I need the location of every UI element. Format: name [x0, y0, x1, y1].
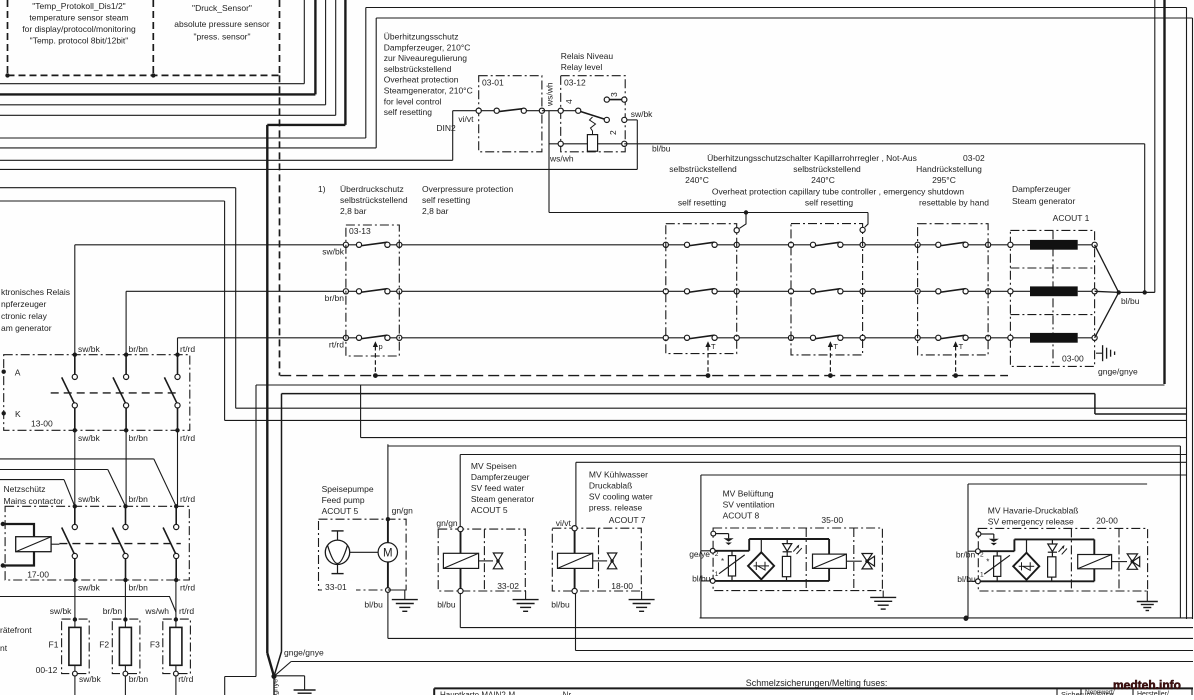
svg-text:*: * — [986, 557, 989, 566]
svg-text:selbstrückstellend: selbstrückstellend — [793, 164, 861, 174]
svg-text:T: T — [959, 342, 964, 351]
svg-text:Nennwert/: Nennwert/ — [1085, 689, 1115, 695]
svg-text:bl/bu: bl/bu — [692, 574, 711, 584]
svg-text:ACOUT 5: ACOUT 5 — [471, 505, 508, 515]
svg-text:240°C: 240°C — [811, 175, 835, 185]
svg-text:33-02: 33-02 — [497, 581, 519, 591]
svg-text:295°C: 295°C — [932, 175, 956, 185]
svg-text:br/bn: br/bn — [129, 674, 149, 684]
svg-text:MV Kühlwasser: MV Kühlwasser — [589, 470, 648, 480]
svg-text:"Druck_Sensor": "Druck_Sensor" — [192, 3, 252, 13]
svg-text:br/bn: br/bn — [129, 344, 149, 354]
svg-text:ws/wh: ws/wh — [549, 154, 574, 164]
svg-text:gnye: gnye — [271, 679, 280, 695]
svg-text:03-12: 03-12 — [564, 78, 586, 88]
svg-text:bl/bu: bl/bu — [957, 574, 976, 584]
svg-text:ACOUT 5: ACOUT 5 — [322, 506, 359, 516]
svg-text:ws/wh: ws/wh — [545, 82, 555, 107]
svg-text:Hauptkarte MAIN2-M: Hauptkarte MAIN2-M — [440, 691, 515, 696]
svg-text:3: 3 — [609, 92, 619, 97]
svg-text:4: 4 — [564, 99, 574, 104]
svg-text:03-02: 03-02 — [963, 153, 985, 163]
svg-text:"Temp_Protokoll_Dis1/2": "Temp_Protokoll_Dis1/2" — [32, 1, 125, 11]
svg-text:ctronic relay: ctronic relay — [1, 311, 48, 321]
svg-text:SV feed water: SV feed water — [471, 483, 525, 493]
svg-text:MV Belüftung: MV Belüftung — [723, 489, 774, 499]
svg-text:*: * — [721, 557, 724, 566]
svg-text:p: p — [379, 342, 383, 351]
svg-text:npferzeuger: npferzeuger — [1, 299, 47, 309]
svg-text:1: 1 — [980, 571, 984, 578]
svg-text:rt/rd: rt/rd — [329, 340, 344, 350]
svg-text:for level control: for level control — [384, 96, 442, 106]
svg-text:ACOUT 8: ACOUT 8 — [723, 511, 760, 521]
svg-text:Steam generator: Steam generator — [1012, 196, 1075, 206]
svg-text:Dampferzeuger, 210°C: Dampferzeuger, 210°C — [384, 42, 471, 52]
svg-text:2,8 bar: 2,8 bar — [340, 206, 367, 216]
svg-text:"press. sensor": "press. sensor" — [193, 32, 250, 42]
svg-text:240°C: 240°C — [685, 175, 709, 185]
svg-text:DIN2: DIN2 — [436, 123, 456, 133]
svg-text:rt/rd: rt/rd — [180, 433, 195, 443]
svg-text:MV Havarie-Druckablaß: MV Havarie-Druckablaß — [988, 506, 1079, 516]
svg-text:gn/gn: gn/gn — [392, 506, 414, 516]
svg-text:ACOUT 7: ACOUT 7 — [609, 515, 646, 525]
svg-text:sw/bk: sw/bk — [631, 109, 653, 119]
svg-text:resettable by hand: resettable by hand — [919, 198, 989, 208]
svg-text:Überdruckschutz: Überdruckschutz — [340, 184, 404, 194]
svg-text:T: T — [711, 342, 716, 351]
svg-text:sw/bk: sw/bk — [79, 674, 101, 684]
svg-text:sw/bk: sw/bk — [78, 433, 100, 443]
svg-text:F2: F2 — [99, 640, 109, 650]
svg-text:ws/wh: ws/wh — [144, 606, 169, 616]
svg-text:Dampferzeuger: Dampferzeuger — [471, 472, 530, 482]
svg-text:Overheat protection capillary: Overheat protection capillary tube contr… — [712, 187, 965, 197]
svg-text:gn/gn: gn/gn — [436, 518, 458, 528]
svg-text:bl/bu: bl/bu — [364, 600, 383, 610]
svg-text:absolute pressure sensor: absolute pressure sensor — [174, 19, 270, 29]
svg-text:br/bn: br/bn — [129, 433, 149, 443]
svg-text:Steam generator: Steam generator — [471, 494, 534, 504]
svg-text:Überhitzungsschutz: Überhitzungsschutz — [384, 32, 459, 42]
svg-text:M: M — [383, 548, 393, 560]
svg-text:Schmelzsicherungen/Melting fus: Schmelzsicherungen/Melting fuses: — [746, 678, 888, 688]
svg-text:Netzschütz: Netzschütz — [4, 484, 46, 494]
svg-text:br/bn: br/bn — [103, 606, 123, 616]
svg-text:03-13: 03-13 — [349, 226, 371, 236]
svg-text:SV cooling water: SV cooling water — [589, 492, 653, 502]
svg-text:rt/rd: rt/rd — [180, 344, 195, 354]
svg-text:br/bn: br/bn — [325, 293, 345, 303]
svg-text:2: 2 — [980, 551, 984, 558]
svg-text:Handrückstellung: Handrückstellung — [916, 164, 982, 174]
svg-text:bl/bu: bl/bu — [551, 600, 570, 610]
svg-text:zur Niveauregulierung: zur Niveauregulierung — [384, 53, 467, 63]
svg-text:rt/rd: rt/rd — [180, 494, 195, 504]
svg-text:medteh.info: medteh.info — [1113, 678, 1181, 692]
svg-text:rt/rd: rt/rd — [180, 583, 195, 593]
svg-text:br/bn: br/bn — [129, 494, 149, 504]
svg-text:self resetting: self resetting — [678, 198, 726, 208]
svg-text:br/bn: br/bn — [129, 583, 149, 593]
svg-text:20-00: 20-00 — [1096, 515, 1118, 525]
svg-text:nt: nt — [0, 643, 8, 653]
svg-text:Overpressure protection: Overpressure protection — [422, 184, 513, 194]
svg-text:self resetting: self resetting — [384, 107, 432, 117]
svg-text:Dampferzeuger: Dampferzeuger — [1012, 184, 1071, 194]
svg-text:13-00: 13-00 — [31, 419, 53, 429]
svg-text:gnge/gnye: gnge/gnye — [284, 648, 324, 658]
svg-text:Overheat protection: Overheat protection — [384, 75, 459, 85]
svg-text:vi/vt: vi/vt — [556, 518, 572, 528]
svg-text:rt/rd: rt/rd — [179, 606, 194, 616]
svg-text:sw/bk: sw/bk — [78, 494, 100, 504]
svg-text:Relais Niveau: Relais Niveau — [561, 51, 614, 61]
svg-text:F3: F3 — [150, 640, 160, 650]
svg-text:2: 2 — [608, 130, 618, 135]
svg-text:sw/bk: sw/bk — [50, 606, 72, 616]
svg-text:17-00: 17-00 — [27, 570, 49, 580]
svg-text:for display/protocol/monitorin: for display/protocol/monitoring — [22, 24, 136, 34]
svg-text:Mains contactor: Mains contactor — [4, 496, 64, 506]
svg-text:bl/bu: bl/bu — [1121, 296, 1140, 306]
svg-text:03-00: 03-00 — [1062, 354, 1084, 364]
svg-text:1: 1 — [715, 571, 719, 578]
svg-text:18-00: 18-00 — [611, 581, 633, 591]
svg-text:2,8 bar: 2,8 bar — [422, 206, 449, 216]
svg-text:"Temp. protocol 8bit/12bit": "Temp. protocol 8bit/12bit" — [30, 36, 129, 46]
svg-text:selbstrückstellend: selbstrückstellend — [340, 195, 408, 205]
svg-text:rätefront: rätefront — [0, 625, 32, 635]
svg-text:bl/bu: bl/bu — [437, 600, 456, 610]
svg-text:T: T — [833, 342, 838, 351]
svg-text:selbstrückstellend: selbstrückstellend — [669, 164, 737, 174]
svg-text:1): 1) — [318, 184, 326, 194]
svg-text:F1: F1 — [49, 640, 59, 650]
svg-text:am generator: am generator — [1, 323, 52, 333]
svg-text:-Nr: -Nr — [560, 691, 571, 696]
svg-text:ktronisches Relais: ktronisches Relais — [1, 287, 70, 297]
svg-text:SV ventilation: SV ventilation — [723, 500, 775, 510]
svg-text:press. release: press. release — [589, 503, 643, 513]
svg-text:35-00: 35-00 — [821, 515, 843, 525]
svg-text:MV Speisen: MV Speisen — [471, 461, 517, 471]
svg-text:00-12: 00-12 — [36, 665, 58, 675]
svg-text:bl/bu: bl/bu — [652, 144, 671, 154]
svg-text:2: 2 — [715, 551, 719, 558]
svg-text:ACOUT 1: ACOUT 1 — [1053, 213, 1090, 223]
svg-text:SV emergency release: SV emergency release — [988, 517, 1074, 527]
svg-text:Speisepumpe: Speisepumpe — [322, 484, 374, 494]
svg-text:self resetting: self resetting — [805, 198, 853, 208]
svg-text:Druckablaß: Druckablaß — [589, 481, 632, 491]
svg-text:A: A — [15, 368, 21, 378]
svg-text:Relay level: Relay level — [561, 62, 603, 72]
svg-text:Steamgenerator, 210°C: Steamgenerator, 210°C — [384, 86, 473, 96]
svg-text:03-01: 03-01 — [482, 78, 504, 88]
svg-text:33-01: 33-01 — [325, 582, 347, 592]
svg-text:gnge/gnye: gnge/gnye — [1098, 367, 1138, 377]
svg-text:selbstrückstellend: selbstrückstellend — [384, 64, 452, 74]
svg-text:K: K — [15, 409, 21, 419]
svg-text:sw/bk: sw/bk — [322, 247, 344, 257]
svg-text:vi/vt: vi/vt — [458, 114, 474, 124]
svg-text:sw/bk: sw/bk — [78, 583, 100, 593]
svg-text:sw/bk: sw/bk — [78, 344, 100, 354]
svg-text:Feed pump: Feed pump — [322, 495, 365, 505]
svg-text:self resetting: self resetting — [422, 195, 470, 205]
svg-text:Überhitzungsschutzschalter Kap: Überhitzungsschutzschalter Kapillarrohrr… — [707, 153, 917, 163]
svg-text:rt/rd: rt/rd — [178, 674, 193, 684]
svg-text:temperature sensor steam: temperature sensor steam — [29, 13, 128, 23]
